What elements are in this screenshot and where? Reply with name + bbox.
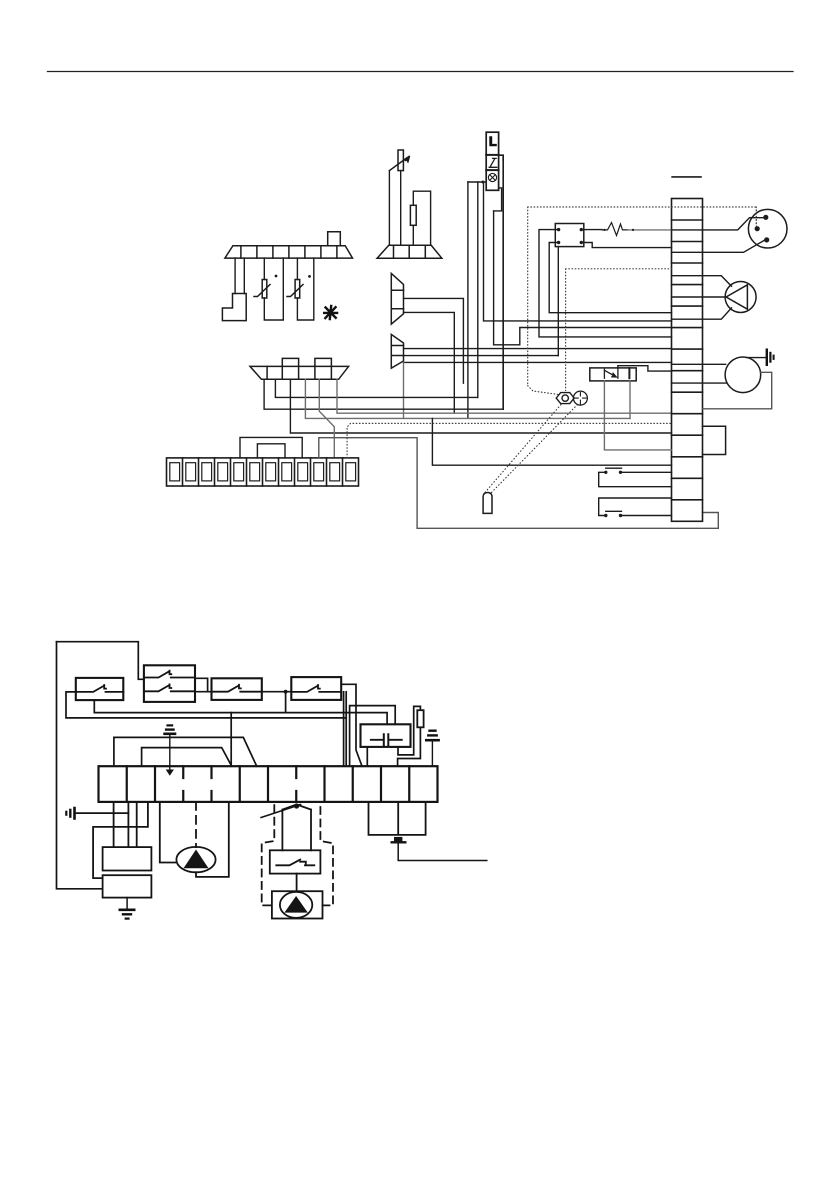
earth under box L2 [126,898,128,908]
wire strip to pump P1 left [160,802,177,863]
outer loop wire: block strip to terminal right side [319,438,719,529]
wire L2: down to rail to connector X3 [477,182,479,397]
wire X3 f: down then grey rail to terminal block [337,379,672,413]
connector X4 (3-way, side entry) [391,273,403,324]
switch glyph B2 upper [144,671,195,678]
switch glyph B2 lower [144,684,195,691]
bracket wire into capacitor box left [350,706,396,767]
wire bus branch down to strip [230,713,232,767]
wire L3: down then right to terminal block [484,182,672,321]
3-pin plug connector [748,209,787,248]
cable boot (sensor body) [222,294,246,321]
wire relay pin2 to fusible link [581,229,602,231]
wire X3 c: down then rail right to terminal block [290,379,671,433]
junction dots on fusible link wire [603,229,605,231]
connector X3 (5-way edge connector with tabs) [250,358,349,379]
indicator lamp glyph [488,173,496,181]
wire motor loop to terminal right [703,372,772,409]
wire junction down to bus [285,692,287,713]
switch glyph in external box [276,860,314,866]
switch glyph in B4 [291,685,341,692]
wire valve coil b down to grey bus [629,381,631,419]
junction dot before B4 [284,690,288,694]
wire X3 e: diagonal into block strip [319,379,334,458]
wire B4 output down to strip (pair) [344,692,347,766]
wire B3 to B4 with junction [262,691,292,693]
switch glyph in B1 [76,685,124,692]
divider under L [486,154,498,156]
wire B1 left loop to B4 branch [66,692,346,718]
capacitor glyph [371,734,402,745]
wire switch box to pump box [296,874,298,892]
wires strip right cells down [369,802,426,835]
external switch box [270,850,321,873]
connector X2 (4-way edge connector, middle) [377,245,442,258]
pump P1 [176,847,215,872]
wire relay pin4 to terminal block [581,243,671,248]
wire B4 top branch diagonal into strip [341,684,362,766]
jumper bracket inner over block strip [257,444,285,458]
thermostat box B1 [76,678,124,700]
dotted boundary outer [528,207,757,395]
solenoid glyph inside valve [604,368,618,378]
thermostat box B2 (double) [144,665,195,702]
wire X5 tail down to grey bus [403,362,405,418]
wire: hang-down from grey bus to terminal block [432,418,671,465]
earth symbol above strip cell 3 [163,725,176,733]
top loop wire to B2 [57,642,144,680]
switch S1 bar [606,467,622,469]
thermal switch glyph inside module [489,158,497,167]
terminal block strip (15 cells) [672,199,703,522]
resistor above X2 [410,205,416,225]
header rule [48,71,794,73]
bottom terminal strip (12 cells) [99,766,438,802]
wires plug mark to external switch box [282,810,311,851]
wire terminal to plug pin1 [672,218,764,230]
wire X4 pin3 down to grey bus [404,312,455,413]
thermistor NTC2 [287,280,303,299]
wire valve coil a down to terminal block [604,381,671,450]
pump (circle with triangle) [725,282,756,313]
wire L4: lamp tail down then right to terminal block [494,211,672,345]
earth symbol left (rotated) [66,807,74,820]
jumper bracket 1 over strip [114,737,257,766]
wire L5: thick module tail down [502,158,504,409]
wire fusible link to terminal block [628,229,672,231]
connector X5 (3-way, side entry) [391,334,403,368]
indicator module housing (L box) [486,132,498,190]
valve divider bar [628,368,630,378]
relay box [555,224,584,247]
earth symbol (rotated) at motor [767,349,774,367]
wire X4 pin2 to terminal rail [404,298,464,383]
wire fuse to right [398,843,487,861]
resistor box [417,710,423,727]
wire X3 d: grey bus down right to gas valve [305,379,630,418]
switch S2 bar [606,510,622,512]
resistor wires to X2 [413,191,430,245]
earth screw (circle with dashed cross) [573,391,587,405]
earth wire with arrow into strip [169,735,171,770]
pump symbol in external box [280,892,312,918]
wire L1: lamp rail down to grey bus [467,182,469,418]
box L2 [103,875,152,897]
junction dot on module wire [481,181,484,184]
wire earth to junction [76,812,129,814]
thermostat box B4 [291,677,341,700]
switch S2 contacts [604,514,607,517]
mains mark above terminal block [672,176,701,178]
dotted wire to terminal block [347,423,671,458]
dotted stub to plug centre pin [755,210,757,226]
dotted boundary inner [566,269,673,391]
switch S2 wires to terminal block [599,498,672,516]
switch S1 contacts [604,471,607,474]
wire cap box bottom left to strip [366,747,368,766]
wire X5 pin1 to terminal block [404,348,672,350]
plug-socket V mark with junction [282,805,311,810]
switch blade across plug mark [261,805,300,818]
wire relay pin3 loop to terminal block [549,243,671,313]
wires terminal to motor [672,364,727,383]
dotted leader lines to fuse bullet [485,405,578,494]
wire X3 a: down then rail right to module tail [264,379,503,409]
wire relay pin1 loop to terminal block [539,230,672,337]
earth stud (hex with circle) [556,393,574,404]
wire earth to strip [431,742,433,767]
dot mark near NTC2 [308,275,311,278]
wire strip wrap to box L2 [93,802,148,878]
jumper bracket outer over block strip [240,437,302,458]
earth symbol right [425,731,440,741]
switch S1 wires to terminal block [599,472,672,486]
wire valve top step to terminal block [618,366,672,371]
module right thick tail [499,155,504,160]
gas valve box [590,368,636,381]
wires strip to box L1 [114,802,137,847]
fuse bar [391,841,407,843]
wire pair to cable boot [235,258,244,293]
pump P1 triangle [184,850,209,869]
wire into module left [468,181,486,183]
bus wire B1 bottom to capacitor box [94,700,387,724]
flow sensor wires to X2 [389,171,400,246]
wire pump P1 bottom loop to strip [196,802,229,877]
asterisk footnote symbol [323,305,338,320]
jumper bracket 2 over strip [142,748,232,767]
side box on terminal block right [703,426,726,454]
connector X1 (8-way edge connector, top left) [225,246,353,258]
wire loop thermistor 1 [264,258,283,320]
switch glyph in B3 [212,685,262,692]
outer left wire down to box L2 [57,642,103,889]
wires terminal to pump [672,276,732,320]
wire relay pin3 down to X5 rail [557,247,559,356]
thermistor NTC1 [254,280,270,299]
flow sensor (rect with arrow) above X2 [389,150,409,171]
wire cap box bottom right up-hook [398,706,420,755]
capacitor box [361,724,411,747]
wire terminal to plug pin3 [672,241,765,253]
wire X5 pin3 to terminal block [404,361,672,363]
fuse square [394,837,402,842]
wire resistor bottom to strip [398,727,421,766]
fusible link zigzag [602,223,628,236]
wire X5 pin2 to relay [404,355,559,357]
wire X3 b: down then rail right to wire L2 [275,379,477,397]
wire B2 upper to B3 [195,678,212,691]
wire motor top to earth [747,357,767,359]
fan motor circle [725,357,761,393]
dashed wire strip to pump P1 top [195,802,197,847]
dot mark near NTC1 [275,275,278,278]
wire loop thermistor 2 [297,258,313,320]
lamp cell tail wire [494,188,502,211]
tab box on connector X1 [328,232,341,246]
label L on indicator module [489,136,497,146]
box L1 [103,847,152,870]
divider under switch cell [486,169,498,171]
dashed accessory boundary [262,805,333,905]
block strip inner cells [170,463,356,481]
plug pins [755,215,770,243]
fuse bullet [483,493,492,514]
12-way block strip [167,458,359,486]
thermostat box B3 [212,678,262,700]
relay pin dots [557,228,583,244]
external pump box [272,891,323,918]
